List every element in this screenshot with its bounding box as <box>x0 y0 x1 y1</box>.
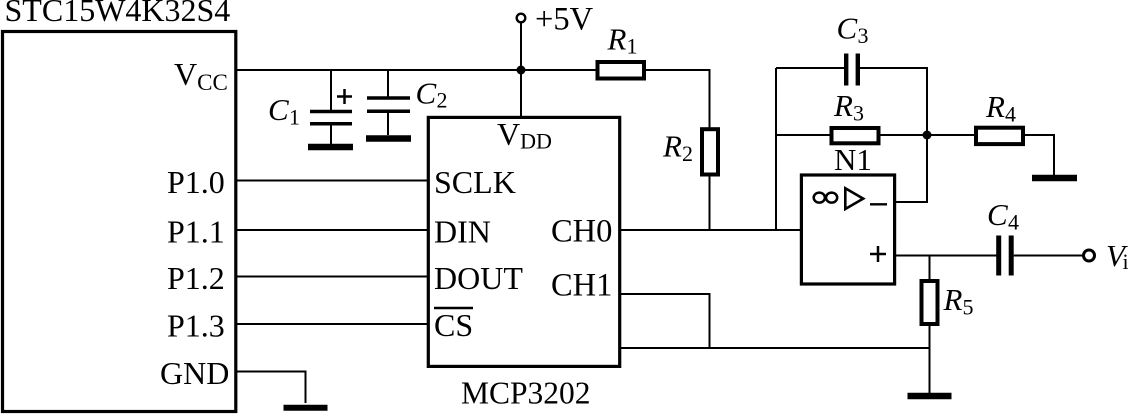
svg-text:DOUT: DOUT <box>434 260 523 296</box>
wire R2 to CH0 net <box>709 174 711 230</box>
svg-text:C: C <box>837 11 858 46</box>
pin label P1.2 <box>167 260 225 296</box>
wire R3 to node <box>880 134 927 136</box>
resistor R5 <box>922 281 938 324</box>
wire CH0 to op-amp output <box>619 229 801 231</box>
capacitor C1 lead top <box>330 69 332 110</box>
ground C1 <box>308 144 353 151</box>
wire VDD drop <box>520 70 522 117</box>
capacitor C1 lead bottom <box>330 125 332 144</box>
wire P1.0 to SCLK <box>235 180 428 182</box>
wire feedback left vertical <box>775 68 777 230</box>
pin label DOUT <box>434 260 523 296</box>
wire P1.3 to CS <box>235 323 428 325</box>
svg-text:P1.3: P1.3 <box>167 308 225 344</box>
wire R1 to R2 <box>646 70 710 129</box>
pin label CH1 <box>551 268 612 304</box>
op-amp infinity symbol <box>814 193 838 203</box>
terminal Vi <box>1084 250 1095 261</box>
svg-text:R: R <box>833 88 853 123</box>
svg-text:R: R <box>985 89 1005 124</box>
wire VCC rail <box>235 69 598 71</box>
svg-text:3: 3 <box>858 23 869 48</box>
wire P1.2 to DOUT <box>235 276 428 278</box>
wire ADC ground rail <box>619 347 930 349</box>
capacitor C2 lead bottom <box>387 112 389 135</box>
pin label P1.3 <box>167 308 225 344</box>
svg-text:R: R <box>607 22 627 57</box>
svg-text:R: R <box>943 282 963 317</box>
svg-text:P1.2: P1.2 <box>167 260 225 296</box>
wire R5 top lead <box>929 256 931 281</box>
svg-text:C: C <box>987 197 1008 232</box>
wire R3 left <box>776 134 830 136</box>
svg-text:C: C <box>268 92 289 127</box>
label MCP3202 <box>461 376 591 411</box>
wire C4 to Vi <box>1014 255 1083 257</box>
pin label CS with overline <box>434 307 473 343</box>
resistor R4 <box>976 128 1023 144</box>
svg-text:4: 4 <box>1005 101 1016 126</box>
capacitor C2 lead top <box>387 69 389 97</box>
svg-text:1: 1 <box>289 105 300 130</box>
label R5 <box>943 282 974 319</box>
svg-text:GND: GND <box>160 355 229 391</box>
pin label VCC <box>174 56 228 95</box>
op-amp plus sign <box>870 246 886 262</box>
svg-text:P1.1: P1.1 <box>167 214 225 250</box>
wire R4 to ground <box>1024 135 1055 175</box>
wire GND <box>235 372 306 404</box>
svg-text:N1: N1 <box>834 142 872 177</box>
svg-text:CH0: CH0 <box>551 214 612 250</box>
pin label GND <box>160 355 229 391</box>
ground R4 <box>1032 175 1077 182</box>
svg-text:2: 2 <box>437 88 448 113</box>
capacitor C4 plates <box>999 236 1012 276</box>
ground R5 <box>908 393 952 400</box>
svg-text:C: C <box>416 76 437 111</box>
label +5V <box>535 2 594 38</box>
op-amp N1 box <box>801 175 894 284</box>
label C3 <box>837 11 869 48</box>
svg-text:CH1: CH1 <box>551 268 612 304</box>
wire node to R4 <box>927 134 976 136</box>
svg-text:+5V: +5V <box>535 2 594 38</box>
ground C2 <box>366 135 411 142</box>
pin label P1.1 <box>167 214 225 250</box>
op-amp triangle symbol <box>845 188 863 209</box>
svg-text:2: 2 <box>682 141 693 166</box>
IC U2 MCP3202 box <box>428 117 619 366</box>
capacitor C3 plates <box>846 54 858 86</box>
label C4 <box>987 197 1019 235</box>
wire CH1 drop <box>619 294 710 348</box>
wire noninverting input <box>895 255 997 257</box>
label C1 <box>268 92 300 130</box>
pin label P1.0 <box>167 164 225 200</box>
wire C3 left <box>776 67 845 69</box>
pin label CH0 <box>551 214 612 250</box>
ground MCU <box>284 405 328 411</box>
label STC15W4K32S4 <box>5 0 231 28</box>
svg-text:R: R <box>662 129 682 164</box>
label R4 <box>985 89 1016 126</box>
wire P1.1 to DIN <box>235 229 428 231</box>
capacitor C2 plates <box>367 98 410 111</box>
resistor R2 <box>702 129 718 174</box>
label Vi <box>1106 238 1128 274</box>
resistor R1 <box>598 62 645 79</box>
capacitor C1 plus sign <box>337 89 352 104</box>
terminal +5V <box>517 14 526 23</box>
junction VCC node <box>517 66 526 75</box>
svg-text:3: 3 <box>853 101 864 126</box>
IC U1 STC15W4K32S4 box <box>3 32 236 412</box>
svg-text:DIN: DIN <box>434 214 491 250</box>
svg-text:MCP3202: MCP3202 <box>461 376 591 411</box>
label N1 <box>834 142 872 177</box>
label R1 <box>607 22 638 59</box>
wire R5 bottom lead <box>929 326 931 393</box>
wire +5V drop <box>520 23 522 71</box>
label R3 <box>833 88 864 126</box>
op-amp minus sign <box>870 203 887 205</box>
wire C3 right <box>859 68 927 135</box>
pin label DIN <box>434 214 491 250</box>
svg-text:5: 5 <box>963 294 974 319</box>
svg-text:4: 4 <box>1008 210 1019 235</box>
svg-text:SCLK: SCLK <box>434 164 516 200</box>
svg-text:STC15W4K32S4: STC15W4K32S4 <box>5 0 231 28</box>
pin label SCLK <box>434 164 516 200</box>
junction feedback node <box>923 131 932 140</box>
svg-text:P1.0: P1.0 <box>167 164 225 200</box>
svg-text:1: 1 <box>627 34 638 59</box>
resistor R3 <box>832 128 879 143</box>
pin label VDD <box>497 116 552 154</box>
wire inverting input <box>895 135 927 202</box>
capacitor C1 plates <box>310 112 352 124</box>
label R2 <box>662 129 693 166</box>
label C2 <box>416 76 448 113</box>
svg-text:i: i <box>1123 249 1128 274</box>
svg-text:CS: CS <box>434 307 473 343</box>
